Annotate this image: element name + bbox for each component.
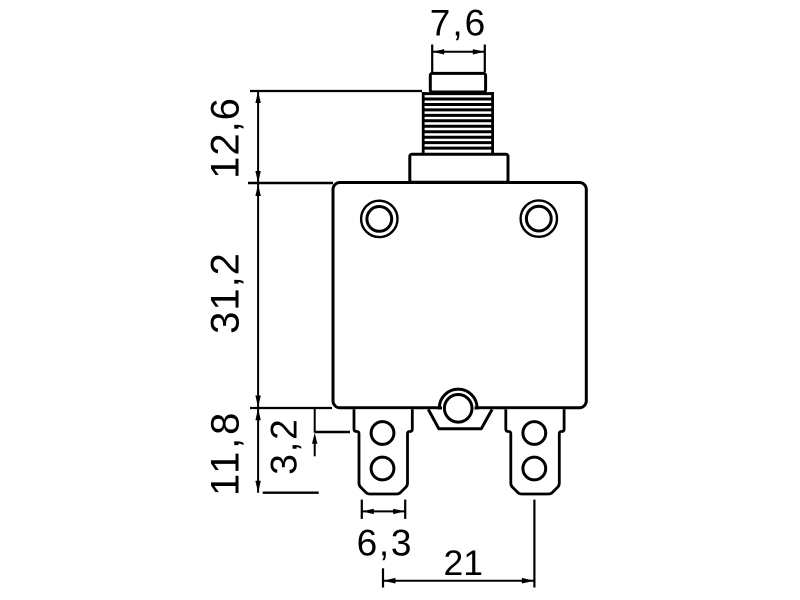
dim 3,2 line: [314, 408, 316, 432]
svg-text:31,2: 31,2: [204, 252, 248, 334]
dim 21 arrow right: [522, 578, 535, 584]
dim 6,3 extension line left: [361, 500, 363, 519]
svg-text:3,2: 3,2: [264, 417, 305, 474]
dim 11,8 arrow bottom: [255, 481, 260, 493]
dim 7,6 extension line right: [484, 45, 486, 73]
breaker body: [333, 183, 586, 408]
mounting hole left: [361, 201, 397, 237]
terminal left: [354, 409, 412, 494]
dim 7,6 extension line left: [431, 45, 433, 73]
dim 6,3 line: [362, 510, 405, 512]
dim 21 extension line right: [533, 500, 535, 588]
terminal right hole lower: [523, 457, 546, 480]
terminal left hole lower: [371, 457, 394, 480]
collar nut: [410, 154, 508, 182]
mounting hole right: [521, 200, 557, 236]
terminal right: [506, 409, 564, 494]
dim 11,8 line: [257, 408, 259, 493]
push button: [430, 73, 485, 92]
dim 7,6 arrow left: [432, 49, 444, 54]
dim 31,2 arrow bottom: [255, 396, 260, 408]
svg-text:6,3: 6,3: [357, 523, 414, 564]
svg-text:21: 21: [444, 543, 484, 583]
terminal right hole upper: [523, 422, 546, 445]
svg-text:12,6: 12,6: [204, 97, 248, 179]
dim 31,2 extension line bottom: [250, 407, 332, 409]
dim 3,2 arrow stem: [314, 437, 316, 456]
dim 7,6 arrow right: [473, 49, 485, 54]
boss interior clear: [442, 406, 475, 410]
dim 12,6 extension line top: [250, 90, 422, 92]
svg-text:7,6: 7,6: [430, 3, 487, 44]
dim 12,6 line: [257, 91, 259, 183]
dim 21 arrow left: [383, 578, 396, 584]
dim 31,2 line: [257, 184, 259, 408]
dim 12,6 arrow top: [255, 91, 260, 103]
terminal left hole upper: [371, 422, 394, 445]
dim 7,6 line: [432, 51, 485, 53]
dim 21 extension line left: [382, 568, 384, 587]
bottom lug trapezoid: [428, 409, 492, 428]
dim 11,8 extension line bottom: [263, 492, 319, 494]
dim 3,2 notch extension line: [315, 431, 350, 433]
dim 31,2 arrow top: [255, 184, 260, 196]
reset boss dome: [439, 389, 477, 408]
svg-text:11,8: 11,8: [204, 410, 248, 496]
dim 3,2 arrow below: [312, 433, 317, 444]
dim 6,3 arrow right: [393, 509, 405, 514]
boss hole: [444, 395, 472, 423]
dim 11,8 arrow top: [255, 408, 260, 420]
dim 6,3 extension line right: [404, 500, 406, 519]
dim 12,6 extension line bottom: [248, 182, 333, 184]
dim 12,6 arrow bottom: [255, 171, 260, 183]
threaded neck: [423, 92, 492, 153]
dim 6,3 arrow left: [362, 509, 374, 514]
dim 21 line: [383, 580, 534, 582]
